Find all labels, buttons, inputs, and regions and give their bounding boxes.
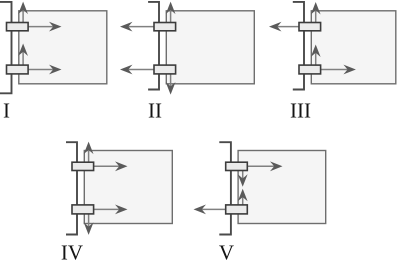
figure III up force at bottom clamp xyxy=(311,45,321,70)
figure I up force at bottom clamp xyxy=(18,44,28,70)
svg-text:II: II xyxy=(148,99,162,123)
figure II down force at bottom clamp xyxy=(166,70,176,95)
figure I top clamp xyxy=(7,23,29,31)
figure I up force at top clamp xyxy=(18,2,28,27)
figure V block xyxy=(238,151,326,224)
svg-text:I: I xyxy=(3,99,10,123)
figure III right force at bottom clamp xyxy=(310,65,356,75)
figure III left force at top clamp xyxy=(269,22,305,32)
figure II block xyxy=(166,11,254,84)
figure V right force at top clamp xyxy=(237,161,283,171)
figure II rail bracket xyxy=(148,2,159,90)
figure IV bottom clamp xyxy=(72,205,94,214)
figure I right force at top clamp xyxy=(17,22,62,32)
figure I rail bracket xyxy=(0,2,12,93)
svg-text:IV: IV xyxy=(61,240,83,260)
figure III bottom clamp xyxy=(299,65,321,74)
figure I right force at bottom clamp xyxy=(17,65,62,75)
figure III up force at top clamp xyxy=(311,2,321,27)
figure V down force at top clamp xyxy=(238,170,248,187)
figure III rail bracket xyxy=(293,2,304,90)
svg-text:V: V xyxy=(219,240,234,260)
figure III block xyxy=(311,11,396,84)
figure I block xyxy=(19,11,107,84)
figure IV rail bracket xyxy=(66,142,77,234)
figure II left force at bottom clamp xyxy=(120,65,160,75)
svg-text:III: III xyxy=(290,99,311,123)
figure IV right force at bottom clamp xyxy=(83,205,128,215)
figure V bottom clamp xyxy=(226,205,248,214)
figure IV block xyxy=(84,151,172,224)
figure IV top clamp xyxy=(72,162,94,170)
figure V rail bracket xyxy=(219,142,231,234)
figure I bottom clamp xyxy=(7,65,29,74)
figure IV up force at top clamp xyxy=(84,142,94,167)
figure II up force at top clamp xyxy=(166,2,176,27)
figure II top clamp xyxy=(154,23,176,31)
figure IV down force at bottom clamp xyxy=(84,209,94,235)
figure III top clamp xyxy=(299,23,321,31)
figure II bottom clamp xyxy=(154,65,176,74)
figure V top clamp xyxy=(226,162,248,170)
figure V up force at bottom clamp xyxy=(238,189,248,209)
figure V left force at bottom clamp xyxy=(194,205,232,215)
figure IV right force at top clamp xyxy=(83,161,128,171)
figure II left force at top clamp xyxy=(120,22,160,32)
